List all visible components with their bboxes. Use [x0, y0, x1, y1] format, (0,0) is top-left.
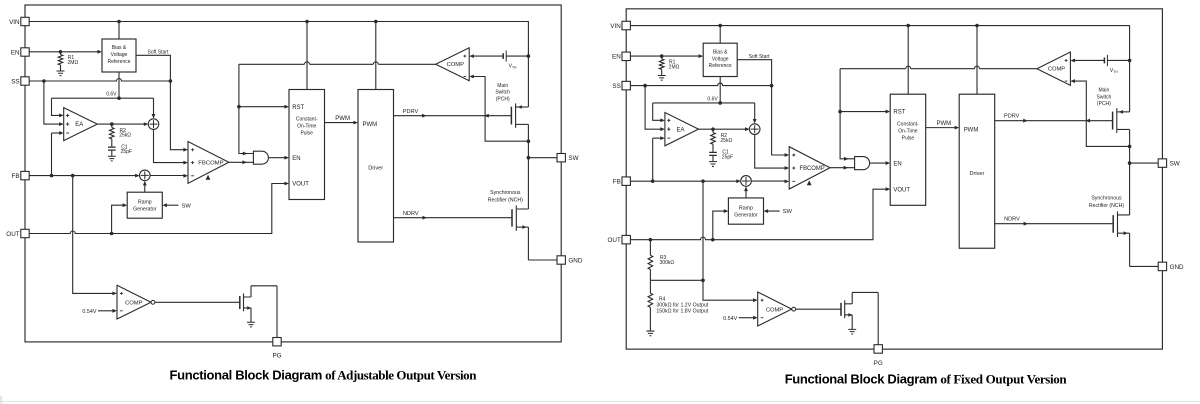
- svg-text:300kΩ: 300kΩ: [660, 260, 675, 266]
- wire COMP out to PG transistor: [796, 308, 841, 310]
- wire divider midpoint: [650, 279, 703, 281]
- svg-text:COMP: COMP: [125, 300, 143, 306]
- svg-text:R4: R4: [659, 296, 666, 302]
- wire FB to PG comparator +: [73, 176, 113, 294]
- svg-text:Functional Block Diagramof Fix: Functional Block Diagramof Fixed Output …: [785, 372, 1068, 387]
- svg-text:300kΩ for 1.2V Output: 300kΩ for 1.2V Output: [656, 302, 708, 308]
- svg-text:COMP: COMP: [766, 307, 783, 313]
- junction FB/PG comp: [71, 174, 75, 178]
- wire 0.54V to COMP-: [739, 317, 754, 319]
- left diagram: adjustable output version: [6, 5, 583, 360]
- svg-text:0.54V: 0.54V: [82, 309, 96, 315]
- svg-text:0.54V: 0.54V: [723, 316, 737, 322]
- wire OUT line to VOUT: [29, 184, 285, 234]
- svg-text:150kΩ for 1.8V Output: 150kΩ for 1.8V Output: [656, 309, 708, 315]
- wire FB to divider midpoint: [702, 181, 704, 280]
- page boundary line: [0, 401, 1200, 402]
- resistor R4: [649, 280, 651, 293]
- wire 0.54V to COMP-: [98, 310, 113, 312]
- wire OUT line to VOUT: [630, 189, 886, 240]
- ground under R4: [646, 331, 654, 336]
- junction divider midpoint: [701, 279, 705, 283]
- wire COMP out to PG transistor: [155, 301, 240, 303]
- junction FB/divider: [701, 179, 705, 183]
- comparator COMP (power good): [758, 292, 792, 326]
- right diagram: fixed output version: [608, 9, 1185, 367]
- svg-text:Functional Block Diagramof Adj: Functional Block Diagramof Adjustable Ou…: [170, 367, 478, 382]
- junction OUT/R3: [649, 238, 653, 242]
- resistor R3: [649, 240, 651, 256]
- comparator COMP (power good): [117, 285, 151, 319]
- wire midpoint to PG comparator +: [703, 280, 754, 300]
